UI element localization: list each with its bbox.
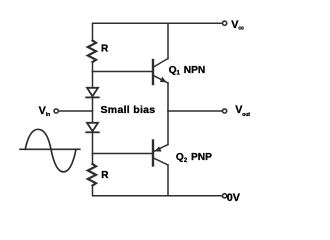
signal source sine wave (20, 129, 80, 172)
svg-text:R: R (101, 44, 109, 55)
diode D1 (86, 88, 99, 98)
wire Q1 emitter to Vout node (167, 83, 169, 111)
svg-text:Q2 PNP: Q2 PNP (176, 152, 212, 164)
svg-text:Q1 NPN: Q1 NPN (169, 65, 206, 77)
wire Vin (59, 110, 93, 112)
terminal Vcc (223, 21, 227, 25)
wire top rail Vcc (93, 23, 223, 40)
wire Q1 collector to rail (167, 23, 169, 58)
resistor R2 (88, 164, 96, 186)
transistor Q1 NPN (153, 59, 168, 85)
svg-text:R: R (101, 170, 109, 181)
svg-text:in: in (46, 112, 50, 118)
svg-text:out: out (242, 112, 250, 118)
wire R2 to bottom rail (93, 186, 223, 196)
wire node to D1 (92, 72, 94, 88)
wire D1 to Vin node to D2 (92, 97, 94, 122)
transistor Q2 PNP (153, 141, 168, 166)
wire Vout node to Q2 emitter (167, 111, 169, 145)
terminal Vin (54, 109, 58, 113)
wire base Q1 (93, 71, 153, 73)
svg-text:cc: cc (238, 25, 244, 31)
resistor R1 (88, 41, 96, 63)
svg-text:0V: 0V (227, 192, 241, 204)
diode D2 (86, 123, 99, 133)
terminal Vout (223, 109, 227, 113)
wire Q2 collector to bottom rail (167, 165, 169, 196)
terminal 0V (223, 194, 227, 198)
wire R1 to base node (92, 62, 94, 72)
svg-text:Small bias: Small bias (101, 104, 156, 116)
wire Vout (168, 110, 222, 112)
wire D2 to base2 node (92, 132, 94, 164)
wire base Q2 (93, 153, 153, 155)
